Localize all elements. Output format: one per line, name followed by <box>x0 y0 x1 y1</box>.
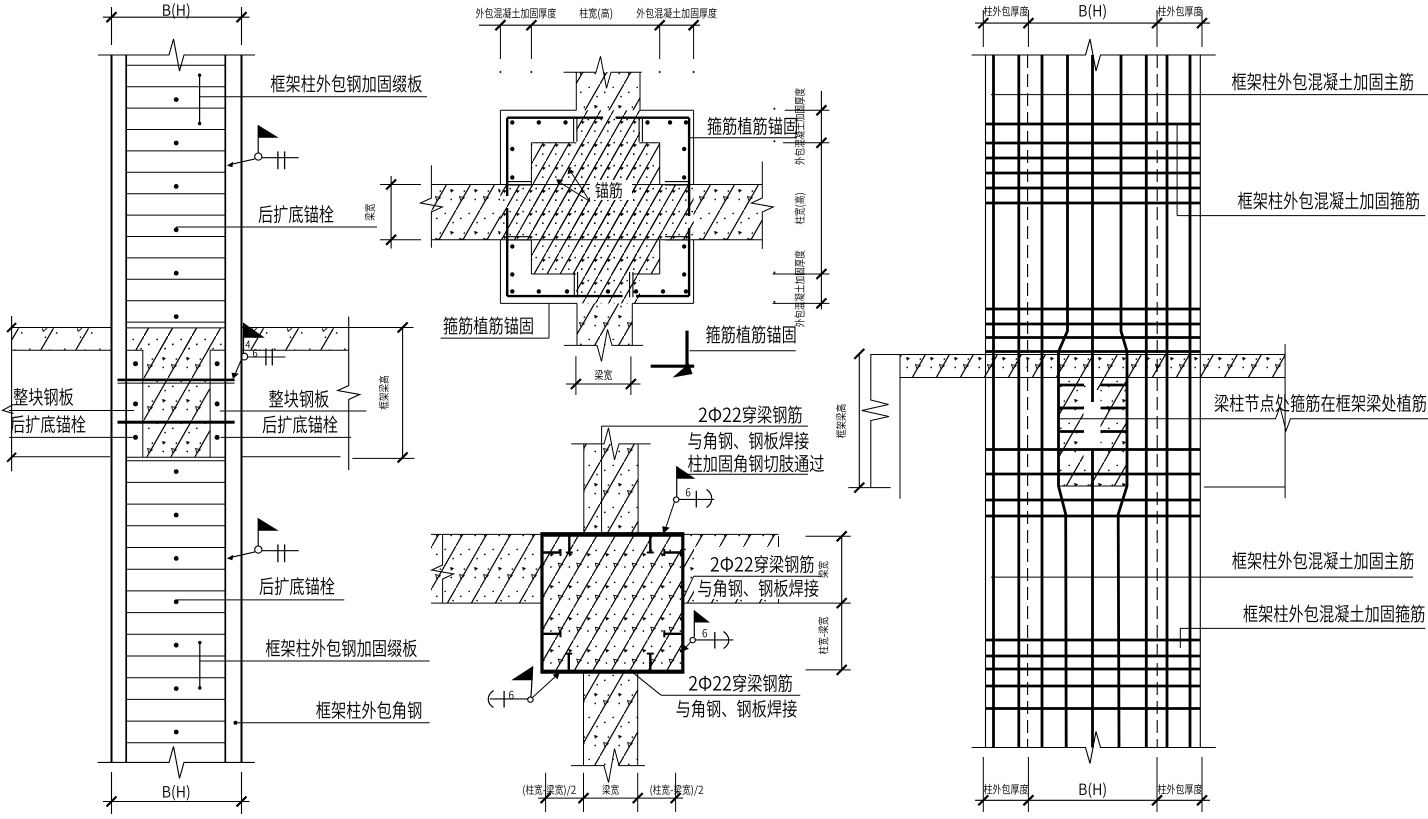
plan bottom dimension 梁宽 <box>575 356 577 395</box>
left beam hatch right of column <box>242 328 348 350</box>
label 后扩底锚栓 lower with leader <box>176 599 344 601</box>
label 梁柱节点处箍筋在框架梁处植筋 with leader <box>1215 394 1426 412</box>
elev block anchor hooks left <box>542 551 561 553</box>
label 整块钢板 right <box>220 410 367 412</box>
plan bottom leg break line <box>564 329 643 361</box>
plan left dimension 梁宽 vertical <box>390 176 392 249</box>
plan top leg beam edges <box>575 72 577 110</box>
plan top leg break line <box>564 56 642 88</box>
label 框架柱外包混凝土加固主筋 top with leader <box>991 94 1428 96</box>
right diagram: dimension 柱外包厚度 B(H) top <box>975 22 1210 24</box>
elev bottom leg hatch <box>584 672 638 766</box>
plan bottom leg edges <box>576 303 578 345</box>
right column dashed original column faces <box>1027 55 1029 748</box>
left column outer angle steel verticals <box>111 55 113 762</box>
weld symbol upper on left column <box>258 125 279 138</box>
left column batten plate lines upper <box>126 64 225 66</box>
label 框架柱外包角钢 with dot leader <box>234 721 238 725</box>
label 后扩底锚栓 right-mid <box>221 436 351 438</box>
left beam slab bottom line <box>12 349 112 351</box>
right joint level line right of column <box>1204 486 1285 488</box>
plan beam right end line with break <box>751 162 773 250</box>
plan outer jacket square with gaps at beams <box>500 109 576 111</box>
plan stirrup anchor hook legs top crossing <box>573 117 575 142</box>
label 框架柱外包钢加固缀板 top with tie-bar leader <box>199 75 201 123</box>
lower guideline left of column <box>12 456 110 458</box>
plan stirrup anchor hook legs right crossing <box>665 181 690 183</box>
left diagram: dimension B(H) top <box>111 7 113 45</box>
elev top leg hatch <box>584 444 638 535</box>
weld symbol middle-right (6) <box>694 610 710 622</box>
weld symbol 4/6 at beam right <box>244 323 265 338</box>
plan hatch: right beam <box>694 185 763 240</box>
left column batten plate lines lower <box>126 460 225 462</box>
plan existing column corner lines <box>531 142 576 144</box>
elev bottom leg edges and break <box>583 672 585 766</box>
elev top leg edges and break <box>583 444 585 535</box>
plan hatch: bottom leg <box>577 303 632 345</box>
framed beam height dimension right of left column <box>402 327 404 459</box>
left joint hatch concrete <box>127 328 225 350</box>
plan beam left end line with break <box>420 165 442 248</box>
elev block anchor hooks right <box>664 551 683 553</box>
weld symbol top (6) <box>677 466 696 479</box>
right beam right end line <box>1284 344 1286 498</box>
left column anchor bolt dots lower <box>174 469 179 474</box>
right joint hatch inside octagon <box>1059 378 1128 487</box>
plan horizontal beam edge lines <box>431 184 762 186</box>
plan main rebar dots <box>510 120 514 124</box>
label 框架柱外包混凝土加固主筋 bottom with leader <box>991 576 1413 578</box>
label 框架柱外包混凝土加固箍筋 bottom with leader <box>1180 627 1425 629</box>
right column stirrup group A <box>986 123 1201 126</box>
plan stirrup anchor hook legs bottom crossing <box>573 272 575 297</box>
left extension line far left <box>11 316 13 471</box>
right column stirrup group C <box>986 448 1201 451</box>
right column stirrup group D <box>986 639 1201 642</box>
right joint planted stirrup segments <box>1059 384 1085 387</box>
right diagram: dimension 柱外包厚度 B(H) bottom <box>975 799 1210 801</box>
label 箍筋植筋锚固 bottom-right with section mark <box>685 331 688 368</box>
elev left beam edges with end break <box>431 533 542 535</box>
plan right side dimension vertical <box>820 91 822 309</box>
plan hatch: horizontal beam inside jacket <box>500 185 693 240</box>
elev block anchor hooks bottom <box>568 654 570 672</box>
label 框架柱外包钢加固缀板 lower with tie-bar leader <box>199 643 201 688</box>
weld symbol lower on left column <box>258 518 279 531</box>
beam right end line with break <box>338 317 360 470</box>
left beam slab top line <box>12 327 112 329</box>
right diagram bottom break line <box>972 732 1216 764</box>
label 2Φ22穿梁钢筋/与角钢、钢板焊接 top with leader <box>699 406 802 424</box>
label 锚筋 with V leader <box>590 180 632 200</box>
elev bottom dimension (柱宽-梁宽)/2 梁宽 <box>545 773 547 812</box>
left joint anchor bolt dots <box>133 361 138 366</box>
lower guideline right of column <box>242 456 340 458</box>
plan hatch: vertical beam inside jacket <box>576 110 640 303</box>
label 框架柱外包混凝土加固箍筋 top with leader <box>1176 124 1178 216</box>
plan stirrup anchor hook legs left crossing <box>506 181 531 183</box>
elev block hatch <box>542 534 683 671</box>
plan hatch: top leg <box>576 72 640 110</box>
right joint hatch white center gap <box>1084 390 1101 468</box>
beam cut extension line with break <box>862 354 889 488</box>
left joint steel plate lower <box>118 421 235 424</box>
left diagram bottom break line <box>98 746 255 778</box>
label 2Φ22穿梁钢筋/与角钢、钢板焊接 middle-right with leader <box>694 547 826 599</box>
plan top dimension 外包混凝土加固厚度/柱宽(高) <box>479 24 700 26</box>
left diagram: dimension B(H) bottom <box>111 772 113 814</box>
label 后扩底锚栓 left-mid <box>9 436 133 438</box>
plan hatch: existing column <box>531 143 659 274</box>
right diagram top break line <box>972 39 1216 71</box>
label 2Φ22穿梁钢筋/与角钢、钢板焊接 bottom with leader <box>689 674 792 692</box>
left joint bottom boundary line <box>126 456 225 458</box>
elev right dimension 梁宽 / 柱宽-梁宽 <box>841 536 843 670</box>
left beam notch top lines inside column <box>126 349 143 351</box>
elev left beam hatch <box>431 534 542 603</box>
right beam band hatch <box>900 355 1286 378</box>
elev right beam hatch <box>683 534 779 603</box>
left column inner angle steel verticals <box>125 55 127 762</box>
framed beam height dimension 框架梁高 between diagrams <box>858 354 860 488</box>
elev block anchor hooks top <box>568 534 570 552</box>
right beam left end line <box>899 355 901 499</box>
left diagram: top break line of column <box>98 39 255 71</box>
elev joint block thick angle-steel border <box>542 534 683 671</box>
left joint steel plate upper <box>118 379 235 382</box>
label 整块钢板 left with arrow <box>9 410 134 412</box>
left beam hatch left of column <box>12 328 111 350</box>
right column main bars vertical <box>992 55 995 748</box>
left column anchor bolt dots upper <box>174 97 179 102</box>
left joint inner white strips verticals <box>142 350 144 457</box>
label 箍筋植筋锚固 top-right with leader <box>689 137 797 139</box>
plan stirrup square thick with anchor gaps <box>507 116 603 118</box>
label 箍筋植筋锚固 bottom-left with leader <box>441 337 549 339</box>
right beam band edges <box>871 354 1286 356</box>
weld symbol bottom-left (6) <box>511 666 533 680</box>
elev right beam edges and end line <box>683 533 779 535</box>
right joint bottom boundary <box>1059 485 1128 487</box>
label 柱加固角钢切肢通过 with underline <box>688 454 824 472</box>
label 后扩底锚栓 upper with leader <box>176 226 377 228</box>
right column stirrup group B <box>986 308 1201 311</box>
plan hatch: left beam <box>431 185 500 240</box>
right column thin outer edges <box>985 55 987 748</box>
